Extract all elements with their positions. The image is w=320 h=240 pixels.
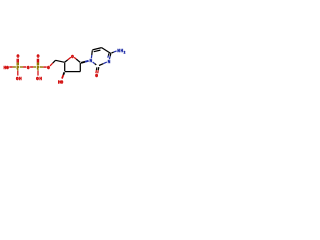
bond C3'-C4' ring bbox=[64, 63, 66, 71]
bond P2-O5' bridge bbox=[40, 66, 47, 68]
svg-text:H: H bbox=[121, 48, 124, 54]
atom P2 bbox=[37, 65, 40, 71]
svg-text:N: N bbox=[117, 48, 120, 54]
bond P2=O double bbox=[37, 59, 38, 65]
atom P1 bbox=[17, 65, 20, 71]
bond C6=C5 double bbox=[92, 48, 101, 52]
atom OH (hydroxyl below P1) bbox=[16, 75, 22, 81]
bond P1=O double bbox=[17, 59, 18, 65]
atom OH (hydroxyl below P2) bbox=[36, 75, 42, 81]
bond C1'-C2' ring bbox=[79, 63, 81, 72]
bond P1-O bridge bbox=[20, 66, 27, 68]
bond N3-C2 bbox=[99, 62, 107, 65]
bond O4'-C1' ring bbox=[74, 57, 80, 62]
bond P2-OH bbox=[37, 69, 39, 76]
svg-text:H: H bbox=[39, 75, 42, 81]
bond C1'-N1 glycosidic bbox=[81, 61, 89, 63]
atom O (P1 double-bond oxygen) bbox=[17, 53, 20, 59]
svg-text:H: H bbox=[19, 75, 22, 81]
bond O5'-C5' bbox=[50, 60, 56, 66]
bond C2=O double bbox=[96, 67, 99, 73]
atom O (5' ester oxygen) bbox=[47, 65, 50, 71]
atom HO (terminal hydroxyl on P1) bbox=[4, 65, 9, 71]
atom O (bridging O between P1 and P2) bbox=[27, 65, 30, 71]
bond N1-C6 bbox=[90, 50, 93, 58]
bond C5'-C4' bbox=[56, 60, 65, 62]
bond C5-C4 bbox=[102, 48, 111, 54]
bond HO-P1 bbox=[9, 66, 16, 68]
svg-text:N: N bbox=[108, 58, 111, 64]
bond C2-N1 bbox=[93, 62, 97, 65]
atom N3 (ring nitrogen) bbox=[108, 58, 111, 64]
molecule: 2'-deoxycytidine 5'-diphosphate (dCDP) skeletal structure bbox=[0, 0, 130, 130]
svg-text:N: N bbox=[90, 58, 93, 64]
bond C4-NH2 bbox=[111, 51, 116, 53]
bond C3'-OH bbox=[62, 72, 64, 78]
bond C4=N3 double bbox=[108, 53, 111, 59]
atom O (P2 double-bond oxygen) bbox=[37, 53, 40, 59]
bond C2'-C3' ring bbox=[65, 71, 81, 73]
bond C4'-O4' ring bbox=[65, 57, 71, 62]
atom O4' (ring oxygen) bbox=[71, 53, 74, 59]
atom HO (3' hydroxyl) bbox=[58, 79, 63, 85]
atom N1 (ring nitrogen) bbox=[90, 58, 93, 64]
bond O bridge-P2 bbox=[30, 66, 36, 68]
bond P1-OH bbox=[17, 69, 19, 76]
atom O (C2 carbonyl oxygen) bbox=[95, 73, 98, 79]
atom NH2 (amino group) bbox=[117, 48, 125, 55]
